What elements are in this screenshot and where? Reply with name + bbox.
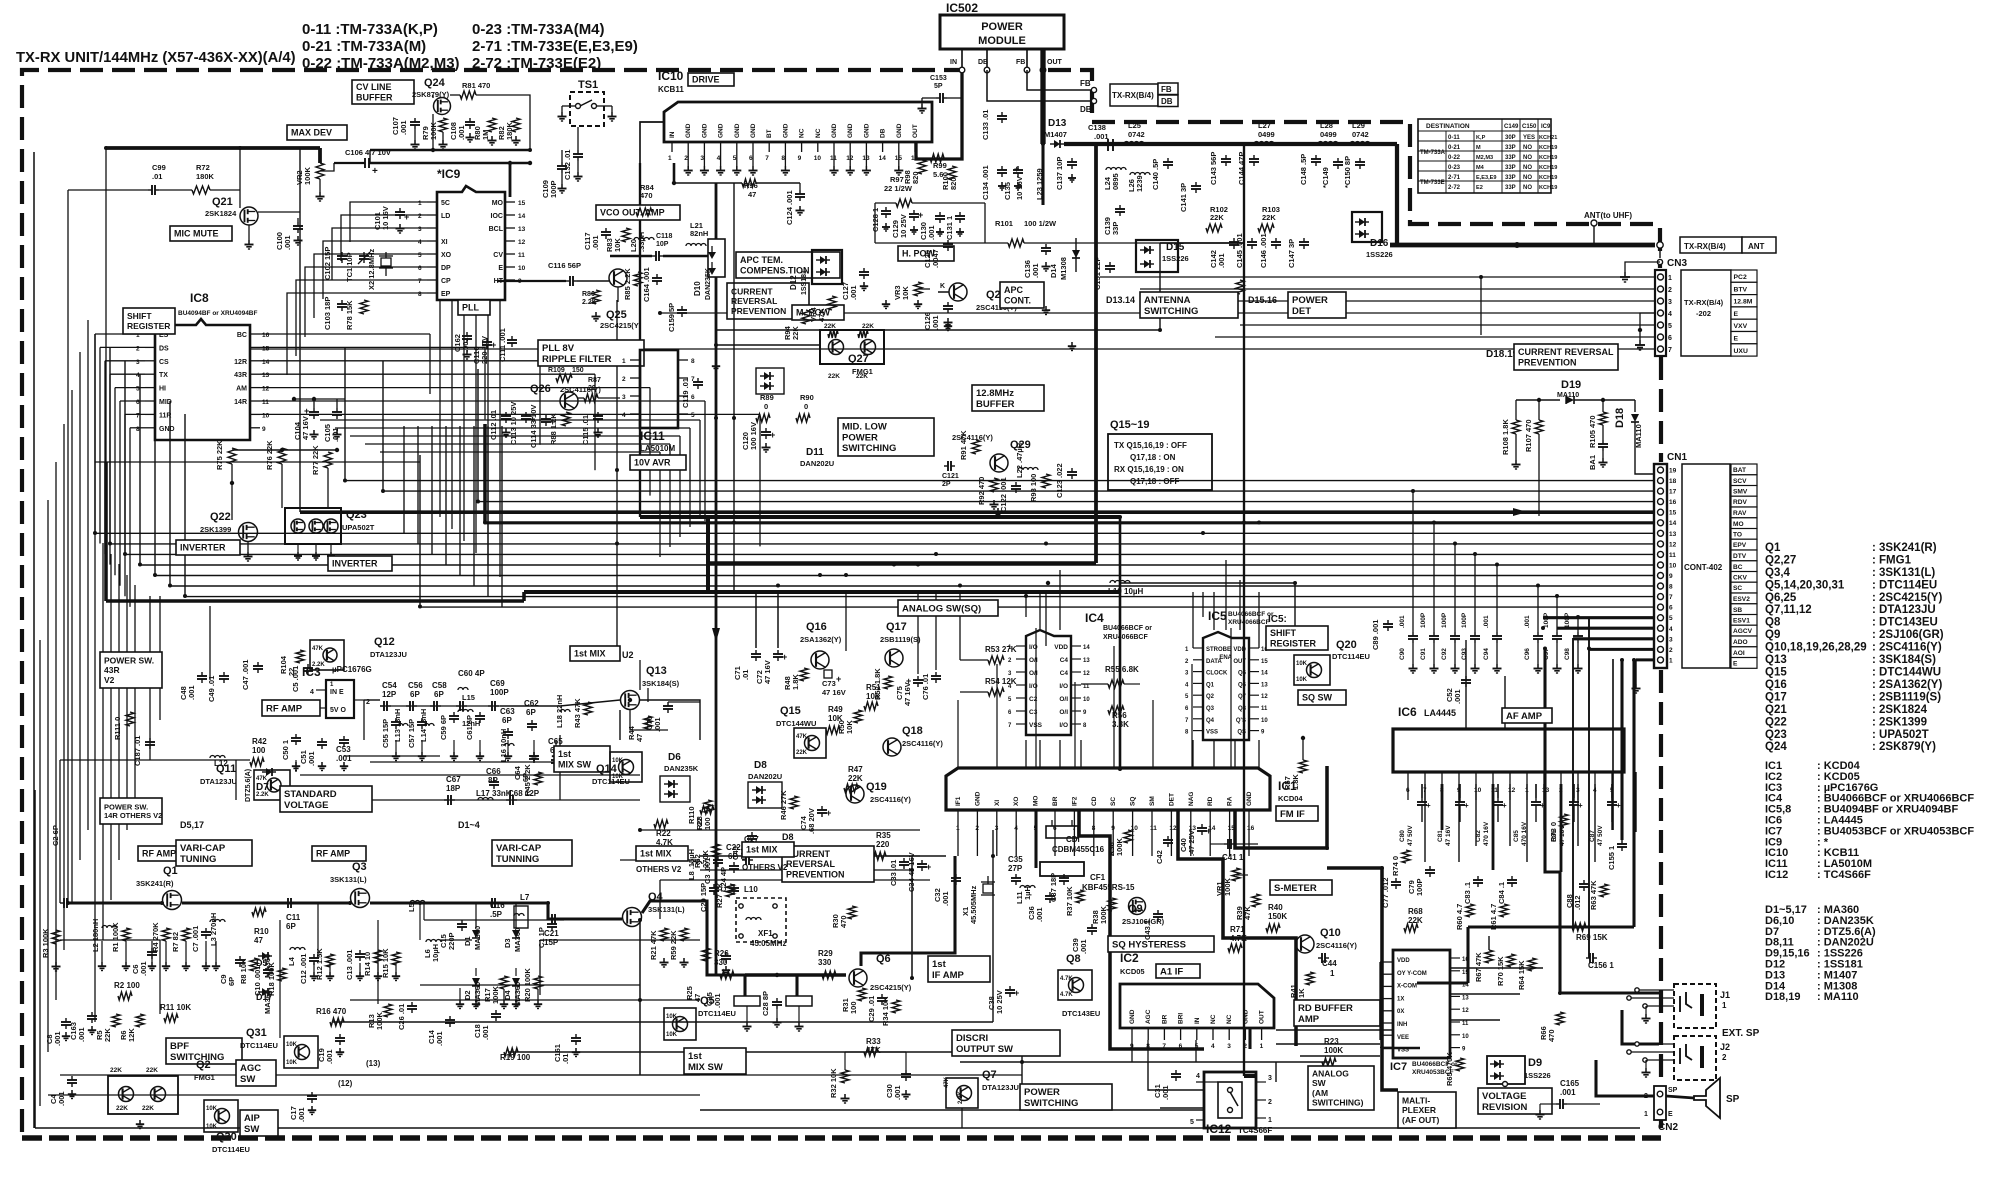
svg-text:14R OTHERS V2: 14R OTHERS V2 (104, 811, 162, 820)
svg-text:2: 2 (366, 699, 370, 706)
svg-text:+: + (836, 674, 841, 684)
capacitor C163 .001 (69, 1012, 97, 1042)
svg-text:GND: GND (685, 123, 692, 138)
transistor Q31 DTC114EU (240, 1027, 318, 1068)
resistor R72 180K (159, 163, 240, 194)
svg-text:OUT: OUT (912, 124, 919, 138)
svg-text:.33µH: .33µH (637, 232, 646, 252)
capacitor C36 .001 (1027, 892, 1055, 922)
svg-text:TC4S66F: TC4S66F (1238, 1126, 1272, 1135)
capacitor C75 47 16V (895, 676, 923, 706)
inductor L20 .33uH (629, 232, 654, 252)
svg-text:MIX SW: MIX SW (688, 1062, 723, 1073)
svg-text:Q31: Q31 (246, 1027, 267, 1039)
svg-text:SMV: SMV (1733, 489, 1748, 496)
resistor R35 220 (840, 831, 920, 860)
wire IC4 IC5 tops to band (1040, 560, 1240, 630)
wire analog SQ drops (756, 592, 1259, 769)
svg-text:R64 15K: R64 15K (1517, 960, 1526, 990)
wire bottom mid horizontals (60, 760, 1204, 1128)
svg-text:DAN235K: DAN235K (664, 764, 699, 773)
svg-text:1: 1 (1669, 657, 1673, 664)
svg-text:12.8M: 12.8M (1734, 299, 1753, 306)
svg-text:2: 2 (622, 376, 626, 383)
svg-text:6: 6 (1406, 787, 1410, 794)
svg-text:+: + (304, 406, 309, 416)
svg-text:INH: INH (1397, 1022, 1407, 1028)
resistor R30 470 (831, 906, 856, 928)
svg-text:2: 2 (1722, 1053, 1727, 1062)
transistor Q8 DTC143EU (1058, 953, 1100, 1018)
svg-text:100P: 100P (549, 180, 558, 198)
svg-text:1K: 1K (1297, 988, 1306, 998)
multiplexer IC7 BU4053BCF (1390, 950, 1469, 1076)
svg-text:GND: GND (750, 123, 757, 138)
svg-text:IC4: IC4 (1085, 611, 1104, 625)
svg-text:KCH19: KCH19 (1539, 165, 1557, 171)
capacitor C68 12P (506, 789, 540, 805)
svg-text:33P: 33P (1505, 165, 1516, 171)
resistor R83 10K (605, 228, 630, 252)
svg-text:POWER SW.: POWER SW. (104, 802, 148, 811)
svg-text:5P: 5P (934, 83, 943, 90)
capacitor C117 .001 (583, 228, 611, 250)
svg-text:: 3SK131(L): : 3SK131(L) (1872, 567, 1935, 579)
resistor R63 47K (1589, 880, 1608, 910)
capacitor C1 1P (537, 920, 557, 948)
trimmer TC1 10P (345, 252, 370, 282)
svg-text:GND: GND (896, 123, 903, 138)
inductor L24 0895 (1103, 168, 1126, 191)
capacitor C135 10 16V (1003, 164, 1024, 200)
svg-text:12: 12 (1083, 671, 1090, 677)
svg-text:KCD05: KCD05 (1120, 967, 1145, 976)
svg-text:D9: D9 (1528, 1057, 1542, 1069)
svg-text:R88 1.2K: R88 1.2K (549, 413, 558, 445)
wire power OUT thick feed (1040, 49, 1045, 144)
svg-text:NO: NO (1523, 185, 1532, 191)
svg-text:C76 .01: C76 .01 (921, 674, 930, 700)
svg-text:O/I: O/I (1029, 670, 1038, 677)
svg-text:REVISION: REVISION (1482, 1102, 1528, 1113)
svg-text:IC12: IC12 (1206, 1122, 1232, 1136)
resistor R48 1.8K (783, 668, 808, 690)
svg-text:C149: C149 (1504, 124, 1519, 130)
svg-text:.001: .001 (307, 751, 316, 766)
svg-text:CD: CD (1091, 796, 1098, 806)
resistor R88 1.2K (549, 412, 570, 445)
resistor R105 470 and capacitor BA1 (1588, 400, 1608, 470)
svg-text:3: 3 (622, 394, 626, 401)
resistor R100 820 (941, 166, 958, 190)
svg-text:TM-733A: TM-733A (1420, 150, 1446, 156)
svg-text:C98: C98 (1564, 648, 1571, 660)
transistor Q6 2SC4215 (849, 953, 912, 992)
svg-text:1: 1 (418, 200, 422, 207)
transistor Q14 DTC114EU (592, 752, 642, 786)
svg-text:VDD: VDD (1233, 647, 1246, 653)
svg-text:Q7,11,12: Q7,11,12 (1765, 604, 1812, 616)
resistor R59 22K (669, 928, 689, 967)
svg-text:SW: SW (1312, 1078, 1327, 1088)
inductor L8 .15uH (687, 849, 702, 880)
svg-text:Q19: Q19 (866, 781, 887, 793)
diode D6 DAN235K (660, 752, 699, 802)
svg-text:12: 12 (518, 239, 526, 246)
svg-text:R105 470: R105 470 (1588, 415, 1597, 448)
svg-text:POWER: POWER (1292, 295, 1328, 306)
svg-text:MO: MO (492, 200, 504, 207)
svg-text:R45 2.2K: R45 2.2K (523, 764, 532, 796)
svg-text:100: 100 (849, 1001, 858, 1014)
svg-text:6: 6 (1668, 335, 1672, 342)
svg-text:GND: GND (782, 123, 789, 138)
svg-text:RAV: RAV (1733, 510, 1747, 517)
capacitor C74 .68 20V (799, 806, 831, 834)
svg-text:GND: GND (734, 123, 741, 138)
svg-text:OTHERS V2: OTHERS V2 (636, 865, 682, 874)
svg-text:C65: C65 (548, 737, 563, 746)
capacitor C99 .01 (118, 163, 166, 195)
resistor R85 2.2K (623, 268, 642, 300)
svg-text:R61 4.7: R61 4.7 (1489, 904, 1498, 930)
svg-text:11: 11 (1669, 552, 1676, 559)
svg-text:R68: R68 (1408, 907, 1423, 916)
svg-text:D18,19: D18,19 (1765, 991, 1800, 1003)
svg-text:L3 270nH: L3 270nH (209, 913, 218, 946)
svg-text:KCH19: KCH19 (1539, 145, 1557, 151)
resistor R67 47K (1474, 950, 1493, 982)
capacitor C34 47 16V (907, 852, 931, 892)
svg-text:.012: .012 (1573, 895, 1582, 910)
svg-text:82nH: 82nH (690, 229, 708, 238)
capacitor C33 .01 (889, 858, 909, 886)
capacitor C41 1 (1210, 839, 1258, 862)
svg-text:D5,17: D5,17 (180, 820, 204, 830)
resistor R45 2.2K (523, 764, 542, 796)
POWER SWITCHING label (1020, 1084, 1112, 1110)
inductor L3 270nH (209, 913, 225, 946)
svg-text:R85 2.2K: R85 2.2K (623, 268, 632, 300)
capacitor C132 .01 (563, 127, 583, 181)
capacitor C73 47 16V (822, 670, 846, 697)
svg-text:.001: .001 (653, 717, 662, 732)
capacitor C31 .001 (1153, 1070, 1181, 1100)
capacitor C121 2P (942, 461, 959, 488)
svg-text:10: 10 (814, 155, 822, 162)
inductor L5 (407, 901, 425, 941)
svg-text:27P: 27P (1008, 864, 1023, 873)
diode D10 DAN235K (693, 239, 725, 300)
svg-text:22K: 22K (862, 323, 874, 330)
svg-text:R32 10K: R32 10K (829, 1068, 838, 1098)
resistor R79 100K (421, 118, 448, 149)
capacitor C105 .001 (323, 399, 342, 442)
capacitor C30 .001 (885, 1052, 911, 1100)
svg-text:10K: 10K (1296, 661, 1308, 667)
svg-text:.001: .001 (1483, 615, 1490, 628)
wire bus to CN1 pins (95, 481, 1654, 693)
svg-text:+: + (491, 340, 496, 350)
capacitor C24 4P (719, 867, 739, 895)
svg-text:0-11 :TM-733A(K,P): 0-11 :TM-733A(K,P) (302, 21, 438, 38)
svg-text:: 2SB1119(S): : 2SB1119(S) (1872, 691, 1941, 703)
svg-text:11: 11 (518, 252, 525, 259)
switch IC4 BU4066BCF (1008, 611, 1152, 735)
svg-text:IC11: IC11 (640, 429, 665, 443)
wire L19 row (1120, 583, 1295, 648)
DRIVE label (688, 73, 734, 86)
svg-text:BR: BR (1161, 1014, 1168, 1024)
svg-text:SW: SW (244, 1124, 259, 1135)
svg-text:C151 22P: C151 22P (1093, 257, 1102, 290)
svg-text:Q15: Q15 (780, 705, 801, 717)
capacitor C5 .001 (291, 664, 313, 692)
ground stubs bottom corner (62, 966, 730, 1129)
svg-text:R49: R49 (828, 705, 843, 714)
svg-text:C29 .01: C29 .01 (867, 996, 876, 1022)
svg-text:3SK241(R): 3SK241(R) (136, 879, 174, 888)
svg-text:C187 .01: C187 .01 (133, 736, 142, 766)
capacitor C14 .001 (427, 1016, 455, 1046)
resistor R109 150 (548, 367, 584, 382)
svg-text:R70 15K: R70 15K (1496, 956, 1505, 986)
resistor R82 180K (497, 118, 521, 145)
inductor L4 (287, 948, 305, 967)
inductor L18 22nH (555, 695, 570, 728)
svg-text:C97: C97 (1543, 648, 1550, 660)
wire left frame vertical (33, 152, 35, 1128)
resistor R77 22K (311, 445, 332, 475)
capacitor C44 1 (1318, 953, 1337, 978)
svg-text:C69: C69 (490, 679, 505, 688)
capacitor C120 100 16V (741, 422, 775, 452)
svg-text:C34 47 16V: C34 47 16V (907, 852, 916, 892)
svg-text:VSS: VSS (1397, 1048, 1409, 1054)
svg-text:R101: R101 (995, 219, 1013, 228)
svg-text:220P: 220P (447, 932, 456, 950)
svg-text:R4 270K: R4 270K (151, 922, 160, 952)
svg-text:14: 14 (1462, 983, 1469, 989)
svg-text:C55 15P: C55 15P (381, 719, 390, 748)
svg-text:D6: D6 (668, 752, 681, 763)
svg-text:C56: C56 (408, 681, 423, 690)
svg-text:TX-RX(B/4): TX-RX(B/4) (1684, 298, 1724, 307)
svg-text:DET: DET (1168, 793, 1175, 806)
svg-text:33P: 33P (1111, 222, 1120, 235)
svg-text:C96: C96 (1524, 648, 1531, 660)
svg-text:: 2SJ106(GR): : 2SJ106(GR) (1872, 629, 1944, 641)
svg-text:C73: C73 (822, 679, 836, 688)
wire IC8 left pin feeds (95, 334, 145, 607)
svg-text:KBF455RS-15: KBF455RS-15 (1082, 883, 1135, 892)
svg-text:: BU4053BCF or XRU4053BCF: : BU4053BCF or XRU4053BCF (1817, 825, 1974, 837)
svg-text:Q20: Q20 (1336, 639, 1357, 651)
svg-text:16: 16 (1669, 499, 1677, 506)
svg-text:IC5: IC5 (1208, 609, 1227, 623)
svg-text:C62: C62 (524, 699, 539, 708)
capacitor C15 220P (439, 920, 467, 950)
svg-text:VOLTAGE: VOLTAGE (1482, 1091, 1527, 1102)
svg-text:2: 2 (1243, 1043, 1247, 1050)
svg-text:STANDARD: STANDARD (284, 789, 337, 800)
svg-text:C85: C85 (1513, 830, 1520, 842)
svg-text:C21: C21 (544, 929, 559, 938)
svg-text:IOC: IOC (491, 213, 503, 220)
svg-text:470: 470 (640, 191, 653, 200)
svg-text:PLL: PLL (462, 303, 480, 313)
resistor R17 100K (483, 976, 508, 1004)
wire AF feeds right (1417, 617, 1659, 1096)
svg-text:3: 3 (136, 359, 140, 366)
svg-text:IF1: IF1 (955, 796, 962, 806)
svg-text:22K: 22K (103, 1028, 112, 1042)
resistor R98 820 (903, 160, 926, 184)
svg-text:10: 10 (1261, 718, 1268, 724)
capacitor C155 1 (1607, 840, 1627, 870)
resistor R20 100K (523, 968, 542, 1002)
svg-text:BU4066BCF or: BU4066BCF or (1103, 625, 1152, 632)
svg-text:RDV: RDV (1733, 499, 1748, 506)
svg-text:2SK1399: 2SK1399 (200, 525, 231, 534)
svg-text:.01: .01 (561, 1054, 570, 1064)
svg-text:33P: 33P (1505, 185, 1516, 191)
svg-text:: 2SC4116(Y): : 2SC4116(Y) (1872, 642, 1942, 654)
ground row under Q3 stage (310, 963, 400, 981)
capacitor C136 .001 (1023, 244, 1051, 278)
svg-text:C3: C3 (1029, 709, 1038, 716)
resistor R64 15K (1517, 958, 1536, 990)
speaker SP (1694, 1078, 1740, 1118)
svg-text:.001: .001 (1524, 615, 1531, 628)
svg-text:REVERSAL: REVERSAL (786, 859, 836, 869)
resistor R10 47 (252, 908, 269, 945)
wire IC1 top verticals (958, 628, 1231, 769)
svg-text:*C150 8P: *C150 8P (1343, 156, 1352, 188)
svg-text:Q10,18,19,26,28,29: Q10,18,19,26,28,29 (1765, 642, 1867, 654)
capacitor C187 .01 (133, 736, 155, 766)
svg-text:C94: C94 (1483, 648, 1490, 660)
svg-text:22K: 22K (1210, 213, 1224, 222)
capacitor C10 .001 (253, 966, 273, 996)
svg-text:47K: 47K (944, 1076, 950, 1088)
svg-text:+: + (1502, 801, 1507, 810)
jack J2 dashed (1674, 1036, 1730, 1080)
svg-text:BUFFER: BUFFER (976, 399, 1015, 410)
inductor L14 18nH (419, 709, 434, 742)
svg-text:12R: 12R (234, 359, 247, 366)
svg-text:47 16V: 47 16V (763, 660, 772, 684)
svg-text:16: 16 (1247, 825, 1255, 832)
resistor R86 2.2K (582, 290, 601, 321)
resistor R55 6.8K (1081, 665, 1140, 688)
svg-text:10: 10 (1669, 563, 1677, 570)
svg-text:9: 9 (262, 426, 266, 433)
capacitor C12 .001 (299, 954, 319, 984)
resistor R74 0 (1391, 850, 1410, 876)
POWER SW. 43R V2 label (100, 652, 162, 688)
svg-text:2SC4116(Y): 2SC4116(Y) (870, 795, 911, 804)
svg-text:8: 8 (1092, 825, 1096, 832)
svg-text:1: 1 (1260, 1043, 1264, 1050)
resistor R95 150K (1215, 280, 1244, 310)
svg-text:.001: .001 (1031, 263, 1040, 278)
svg-text:LA4445: LA4445 (1424, 708, 1456, 718)
capacitor C128 1 (871, 207, 891, 232)
svg-text:SQ HYSTERESS: SQ HYSTERESS (1112, 939, 1186, 950)
svg-text:Q7: Q7 (1238, 694, 1247, 700)
inductor L6 10uH (423, 940, 441, 962)
svg-text:Q1: Q1 (163, 865, 178, 877)
capacitor C112 .01 (489, 410, 511, 440)
svg-text:12: 12 (1508, 787, 1516, 794)
svg-text:D15: D15 (1166, 242, 1185, 253)
svg-text:C61 6P: C61 6P (465, 715, 474, 740)
svg-text:VCO OUT. AMP: VCO OUT. AMP (600, 208, 665, 218)
resistor R84 470 (636, 183, 655, 216)
svg-text:REGISTER: REGISTER (1270, 638, 1317, 648)
svg-text:YES: YES (1523, 135, 1535, 141)
svg-text:L19 10µH: L19 10µH (1108, 587, 1144, 596)
resistor R7 82 (171, 928, 190, 952)
svg-text:U2: U2 (622, 650, 634, 660)
svg-text:IN E: IN E (330, 689, 344, 696)
svg-text:L4: L4 (287, 956, 296, 966)
capacitor C63 6P (500, 707, 515, 739)
svg-text:Q13: Q13 (1765, 654, 1787, 666)
svg-text:7: 7 (691, 376, 695, 383)
svg-text:10: 10 (262, 412, 270, 419)
svg-text:2SC4116(Y): 2SC4116(Y) (1316, 941, 1357, 950)
capacitor C142 .001 (1209, 238, 1239, 268)
svg-text:GND: GND (831, 123, 838, 138)
capacitor C71 .01 (733, 650, 761, 680)
svg-text:R20 100K: R20 100K (523, 968, 532, 1002)
capacitor C164 .001 (642, 267, 662, 302)
svg-text:.01: .01 (741, 670, 750, 680)
svg-text:Q15~19: Q15~19 (1110, 419, 1149, 431)
resistor R42 100 (250, 737, 267, 766)
svg-text:C59 6P: C59 6P (439, 715, 448, 740)
capacitor C139 33P (1103, 205, 1125, 235)
svg-text:15P: 15P (544, 938, 559, 947)
svg-text:5: 5 (1034, 825, 1038, 832)
svg-text:C164 .001: C164 .001 (642, 267, 651, 302)
svg-text:R77 22K: R77 22K (311, 445, 320, 475)
svg-text:: FMG1: : FMG1 (1872, 555, 1912, 567)
svg-text:QS: QS (1237, 730, 1246, 736)
wire bottom RF extra horizontals (60, 903, 700, 1038)
svg-text:NO: NO (1523, 145, 1532, 151)
VCO OUT. AMP label (596, 205, 680, 220)
capacitor C13 .001 (345, 950, 365, 980)
wire staircase verticals (left bus) (95, 148, 478, 607)
svg-text:IC5:: IC5: (1268, 614, 1287, 625)
svg-text:13: 13 (262, 372, 270, 379)
inductor L29 0742 (1350, 121, 1370, 144)
svg-text:Q1: Q1 (1765, 542, 1781, 554)
svg-text:6P: 6P (410, 690, 420, 699)
svg-text:2: 2 (136, 345, 140, 352)
svg-text:C7 .001: C7 .001 (191, 926, 200, 952)
svg-text:IN: IN (1194, 1017, 1201, 1024)
svg-text:CLOCK: CLOCK (1206, 671, 1228, 677)
svg-text:RF AMP: RF AMP (316, 849, 350, 859)
svg-text:C63: C63 (500, 707, 515, 716)
svg-text:NC: NC (1210, 1014, 1217, 1024)
svg-text:C13 .001: C13 .001 (345, 950, 354, 980)
svg-text:-202: -202 (1696, 309, 1711, 318)
